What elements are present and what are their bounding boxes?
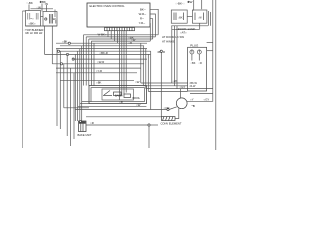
- node J L10: [72, 58, 74, 60]
- svg-text:○W-R: ○W-R: [97, 60, 104, 64]
- wire junction to circle: [169, 107, 177, 110]
- svg-text:◌-BK: ◌-BK: [26, 1, 33, 5]
- wire inner-bottom extension: [82, 101, 91, 103]
- latch B bar1: [194, 13, 196, 21]
- wire vert left group 3: [63, 64, 65, 108]
- wire junction to right: [150, 124, 158, 126]
- svg-text:W-R─: W-R─: [139, 12, 147, 16]
- wire connector drop 2: [110, 31, 112, 39]
- latch B bar2: [203, 13, 205, 21]
- wire drop label2: [41, 4, 43, 12]
- node J L8: [57, 50, 59, 52]
- switch box SW-A: [26, 11, 41, 27]
- switch SW-B bar2: [50, 14, 52, 24]
- svg-text:○BK-R: ○BK-R: [99, 51, 107, 55]
- wire connector drop 4: [117, 31, 119, 44]
- wire label latch drop3: [173, 79, 178, 83]
- plug label: [190, 43, 199, 47]
- wire long drop 1: [81, 46, 83, 121]
- switch box SW-B: [43, 12, 57, 27]
- wire label oW top-left: [44, 2, 49, 6]
- wire bundle L14: [60, 80, 134, 82]
- wire bundle L7: [56, 48, 147, 50]
- wire label on top bus: [36, 6, 41, 10]
- svg-text:○W: ○W: [135, 80, 140, 84]
- wire label L8 right: [157, 50, 165, 54]
- convection motor M1: [176, 98, 187, 109]
- wire latch drop 2: [173, 26, 175, 86]
- latch A bar3: [183, 13, 185, 21]
- bake element bars: [81, 121, 83, 132]
- wire label motor top: [180, 85, 186, 89]
- label ELECTRIC OVEN CONTROL: [90, 4, 126, 8]
- svg-text:○R-W: ○R-W: [189, 85, 196, 88]
- svg-text:◌W: ◌W: [44, 2, 49, 6]
- wire latch bus2: [172, 28, 200, 30]
- plug box P1: [188, 47, 207, 91]
- svg-text:○Y: ○Y: [190, 98, 194, 102]
- wire plug feed 1: [141, 82, 188, 84]
- wire label motor right: [190, 98, 194, 102]
- wire L3 left drop: [88, 39, 90, 86]
- wire top bus: [31, 8, 54, 10]
- wire between switch boxes: [41, 16, 44, 18]
- svg-text:○AT○: ○AT○: [180, 30, 187, 34]
- wire L9 from cluster: [44, 26, 46, 54]
- wire stub right 1: [150, 9, 158, 35]
- note asterisk: [192, 104, 195, 108]
- svg-text:≈○: ≈○: [30, 17, 34, 21]
- wire rail to cluster: [23, 10, 26, 12]
- wire long drop 2: [79, 49, 81, 121]
- switch SW inside box: [103, 91, 112, 96]
- wire vert mid-right 2: [140, 43, 142, 83]
- wire bundle L2: [86, 36, 155, 38]
- wire vert mid-right 1: [150, 51, 152, 109]
- switch SW-A blob: [30, 17, 34, 21]
- svg-text:BK─: BK─: [140, 7, 146, 11]
- switch SW-B bar1: [49, 14, 51, 24]
- wire latch drop 1: [171, 26, 173, 83]
- svg-text:○BK: ○BK: [178, 16, 183, 19]
- latch A bar1: [173, 13, 175, 21]
- wire drop label1: [28, 5, 30, 11]
- label group right of bundle b: [131, 38, 136, 42]
- wire L5 left drop: [93, 43, 95, 85]
- plug tick A: [191, 50, 193, 53]
- wire bundle L10: [73, 58, 147, 60]
- wire latch right stub2: [210, 12, 212, 26]
- plug receptacle A: [190, 50, 194, 54]
- wire far right vertical 2: [215, 0, 217, 150]
- wire bundle L6: [60, 45, 144, 47]
- node J L5: [68, 42, 70, 44]
- svg-text:○R: ○R: [128, 41, 132, 45]
- latch A blob: [178, 16, 183, 19]
- wire connector drop 8 long: [125, 31, 127, 93]
- wire label latch 2: [187, 0, 192, 4]
- latch box B: [192, 10, 207, 23]
- label TOP BURNER SW row2: [26, 31, 43, 35]
- wire plug bottom link: [190, 93, 213, 95]
- bake element E1: [79, 121, 87, 132]
- svg-text:○R: ○R: [199, 62, 203, 65]
- bake element cap: [79, 121, 86, 123]
- wire left rail: [22, 11, 24, 148]
- relay box K1 inner: [91, 88, 144, 102]
- wire drop from junction: [148, 126, 150, 148]
- component block 2 inside box: [124, 94, 131, 98]
- wire plug stem A: [191, 54, 193, 61]
- wire latch drop 3: [176, 26, 178, 89]
- wire plug stem B: [198, 54, 200, 61]
- svg-text:○BK: ○BK: [96, 80, 102, 84]
- wire label exit 1: [119, 100, 123, 104]
- node bake wire junction: [148, 124, 150, 126]
- wire cluster bottom bus: [26, 25, 58, 27]
- svg-text:RF LF RR LR: RF LF RR LR: [26, 31, 43, 35]
- wire L11 from cluster: [51, 26, 53, 64]
- svg-text:W-BK○: W-BK○: [98, 32, 107, 36]
- label AT DOOR 2: [162, 39, 175, 43]
- wire vert left group 1: [56, 49, 58, 126]
- wire label left L5: [62, 40, 68, 44]
- wire bundle L5: [56, 42, 147, 44]
- wire vert mid-right 4: [145, 49, 147, 89]
- wire long drop 4: [74, 54, 76, 121]
- wire label on bake wire: [90, 121, 94, 125]
- wire bundle L8 long: [59, 50, 151, 52]
- wire L2 left drop: [85, 37, 87, 86]
- wire latch bus: [171, 25, 208, 27]
- wire label exit C: [136, 103, 141, 107]
- svg-text:Y-R─: Y-R─: [139, 21, 146, 25]
- wire vert left group 4: [66, 54, 68, 136]
- wire drop label3: [46, 5, 48, 12]
- wire long drop 3: [77, 51, 79, 121]
- latch B blob: [198, 16, 202, 19]
- wire vert mid-right 3: [142, 46, 144, 86]
- svg-text:BROIL: BROIL: [133, 97, 141, 100]
- wire vert left group 6: [73, 73, 75, 139]
- switch SW-B circle: [45, 18, 47, 20]
- wire cluster stub right2: [55, 20, 57, 24]
- svg-text:PLUG: PLUG: [190, 43, 199, 47]
- wire vert left group 5: [70, 68, 72, 146]
- wire L1 left drop: [83, 35, 85, 86]
- label plug bottom b: [189, 85, 196, 88]
- wire latch link: [187, 16, 192, 18]
- label convection element: [161, 121, 182, 125]
- wire label motor left: [164, 106, 170, 110]
- svg-text:○BK: ○BK: [191, 62, 196, 65]
- wire plug right link: [207, 50, 213, 52]
- wire connector drop 3: [113, 31, 115, 41]
- switch SW-A bar3: [35, 13, 37, 20]
- switch SW-A bar4: [37, 13, 39, 20]
- svg-text:AT HINGE: AT HINGE: [162, 39, 175, 43]
- wire outer-bottom extension: [80, 103, 89, 105]
- wire label mid L11: [97, 60, 104, 64]
- node J L9: [66, 53, 68, 55]
- svg-text:○OR: ○OR: [164, 106, 170, 110]
- wire motor top drop: [180, 89, 182, 99]
- wire label above box left: [96, 80, 102, 84]
- label latch bottom2: [180, 30, 187, 34]
- switch SW-B blob: [53, 17, 56, 21]
- svg-text:○BK: ○BK: [62, 40, 68, 44]
- wire label oBK top-left: [26, 1, 33, 5]
- wire bundle L9: [45, 53, 151, 55]
- relay box K1 outer: [89, 86, 146, 104]
- wire box left link: [64, 107, 89, 109]
- label latch bottom: [176, 27, 196, 31]
- component block inside box: [114, 92, 122, 96]
- wire below-box exit D: [75, 109, 167, 111]
- relay box K1 inner2: [102, 89, 134, 100]
- oven control box U1: [87, 3, 150, 27]
- svg-text:*B: *B: [192, 104, 195, 108]
- wire stub right 4: [149, 24, 151, 42]
- svg-text:○W: ○W: [136, 103, 141, 107]
- plug tick B: [198, 50, 200, 53]
- wire label mid L9: [99, 51, 107, 55]
- wire motor top feed: [146, 88, 213, 90]
- wire motor loop right: [148, 90, 187, 92]
- svg-text:✱W: ✱W: [187, 0, 192, 4]
- latch box A: [171, 10, 187, 23]
- switch SW-B bar3: [52, 14, 54, 24]
- wire below-box exit C: [78, 106, 147, 108]
- wire bundle L11: [52, 63, 144, 65]
- connector J1 strip: [105, 28, 135, 31]
- wire connector drop 6 long: [121, 31, 123, 96]
- wire connector drop 7 long: [123, 31, 125, 95]
- wire bundle L4: [91, 40, 150, 42]
- switch SW-A label: [29, 22, 36, 26]
- svg-text:BAKE○: BAKE○: [115, 94, 124, 97]
- label inside box 2: [133, 97, 141, 100]
- plug receptacle B: [197, 50, 201, 54]
- switch SW-A bar2: [29, 13, 31, 20]
- wire conv element feed vertical: [160, 51, 162, 116]
- node J L11: [60, 63, 62, 65]
- wire bundle L12: [56, 67, 141, 69]
- wire plug feed 2: [143, 85, 187, 87]
- wire label xBK top-left: [40, 0, 46, 4]
- label pin Y-R: [139, 21, 146, 25]
- svg-text:○Y-R: ○Y-R: [96, 69, 102, 73]
- wire element right to motor: [175, 108, 179, 118]
- wire label above box right: [135, 80, 140, 84]
- node bake: [79, 120, 81, 122]
- wire vert left group 2: [59, 51, 61, 129]
- svg-text:◌-BK-◌: ◌-BK-◌: [175, 2, 185, 6]
- label BAKE UNIT: [78, 133, 92, 137]
- label pin W-R: [139, 12, 147, 16]
- wire conv element line: [86, 116, 162, 118]
- wire label oBKo latch: [175, 2, 185, 6]
- latch A bar2: [175, 13, 177, 21]
- node motor-left junction: [167, 108, 169, 110]
- wire cluster stub right: [54, 10, 56, 18]
- wire plug top link: [207, 42, 213, 44]
- label plug bottom a: [189, 82, 198, 85]
- wire latch topdrop 2: [201, 0, 203, 9]
- label group right of bundle c: [128, 41, 132, 45]
- wire connector drop 1: [107, 31, 109, 37]
- label plug A: [191, 62, 196, 65]
- wire latch topdrop 1: [193, 0, 195, 11]
- switch SW-A bar1: [27, 13, 29, 20]
- label pin R: [140, 17, 144, 21]
- wire label mid L13: [96, 69, 102, 73]
- svg-text:W: W: [53, 17, 56, 21]
- svg-text:○BK-W: ○BK-W: [189, 82, 198, 85]
- label plug B: [199, 62, 203, 65]
- label pin BK: [140, 7, 146, 11]
- label AT DOOR: [162, 35, 184, 39]
- wire far right vertical 1: [187, 0, 213, 101]
- svg-text:○R: ○R: [119, 100, 123, 104]
- label group right of bundle a: [128, 36, 134, 40]
- wire bundle L3: [89, 38, 153, 40]
- wire bundle L1: [84, 34, 159, 36]
- label TOP BURNER SW: [24, 28, 46, 32]
- svg-text:AT DOOR LK SW: AT DOOR LK SW: [162, 35, 184, 39]
- wire bundle L13: [56, 72, 137, 74]
- wire latch box stub down: [199, 23, 201, 29]
- label inside box: [115, 94, 124, 97]
- wire L4 left drop: [90, 41, 92, 85]
- wire stub right 3: [150, 19, 153, 39]
- svg-text:○R: ○R: [90, 121, 94, 125]
- wire connector drop 5 long: [119, 31, 121, 100]
- wire label W-BK bundle top: [98, 32, 107, 36]
- svg-text:R─: R─: [140, 17, 144, 21]
- svg-text:○GY: ○GY: [204, 98, 210, 102]
- wire vert mid-right 5: [147, 54, 149, 91]
- wire bake to right: [86, 124, 148, 126]
- node conv feed: [160, 50, 162, 52]
- svg-text:○GY: ○GY: [180, 85, 186, 89]
- convection element E2: [162, 117, 176, 121]
- wire label motor right 2: [204, 98, 210, 102]
- wire latch right stub1: [208, 11, 210, 26]
- svg-text:○BK○: ○BK○: [29, 22, 36, 26]
- wire stub right 2: [150, 14, 155, 37]
